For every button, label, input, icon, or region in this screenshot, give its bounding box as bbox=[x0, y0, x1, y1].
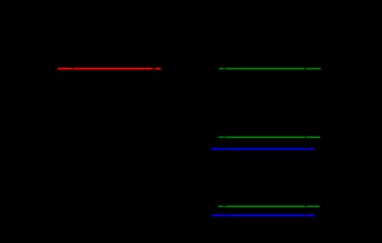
energy level L2 (green, right top) bbox=[219, 67, 320, 71]
energy level L1 (red, left column) bbox=[58, 67, 161, 71]
energy level L5 (green, right bottom) bbox=[219, 204, 320, 208]
energy level L4 (blue, right middle) bbox=[212, 147, 314, 151]
energy level L3 (green, right middle) bbox=[219, 135, 320, 139]
energy level L6 (blue, right bottom) bbox=[213, 214, 314, 218]
